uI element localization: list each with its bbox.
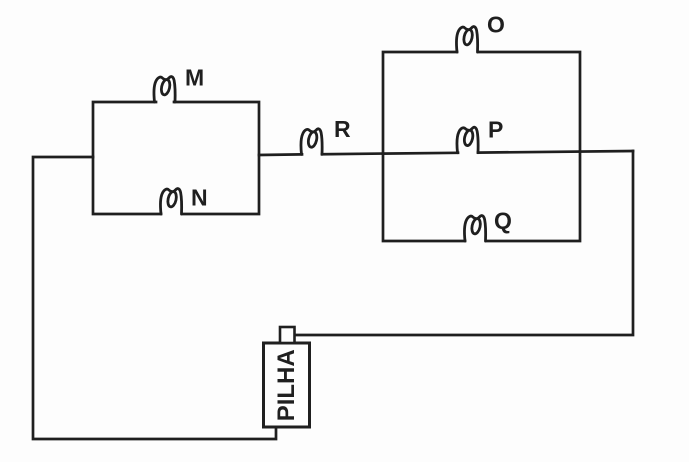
svg-text:M: M [185, 65, 204, 91]
svg-text:P: P [488, 117, 503, 143]
svg-text:PILHA: PILHA [273, 349, 300, 421]
svg-text:O: O [487, 12, 505, 38]
svg-text:R: R [334, 116, 351, 142]
svg-text:N: N [191, 185, 208, 211]
svg-text:Q: Q [494, 208, 512, 234]
